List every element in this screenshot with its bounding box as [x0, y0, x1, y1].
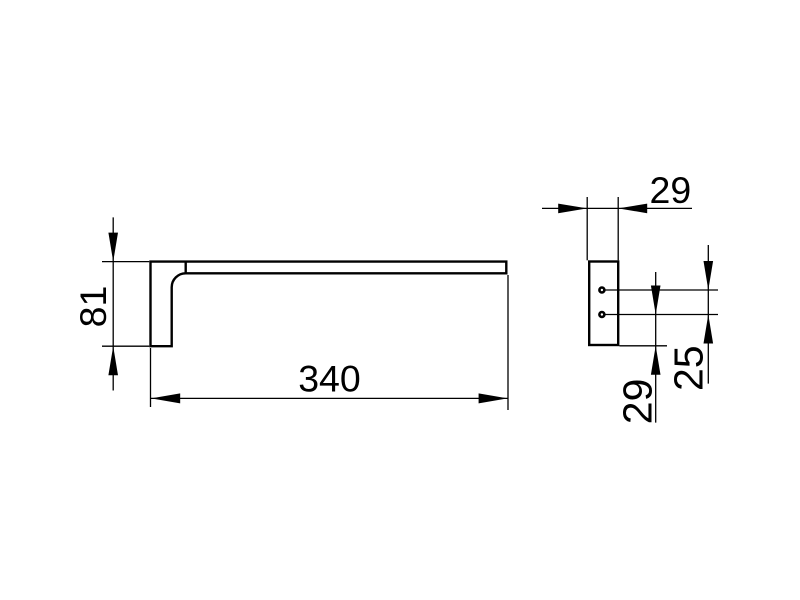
dim 81: bottom extension line: [102, 345, 149, 347]
front view: lower screw hole: [599, 312, 604, 317]
dim 81: top extension line: [102, 261, 149, 263]
side view: bracket outline (wall plate + bar): [151, 262, 507, 347]
dim 25: lower arrow (points up): [704, 315, 714, 344]
dim 340: dimension line: [151, 397, 508, 399]
dim 340: right arrow (points right): [479, 393, 508, 403]
dim 81: dimension line: [112, 217, 114, 390]
front view: upper screw hole: [599, 288, 604, 293]
dim 25: upper arrow (points down): [704, 261, 714, 290]
extension line from plate bottom: [619, 345, 667, 347]
dim 25: dimension line: [707, 245, 709, 384]
dim 29 bottom: dimension line: [655, 272, 657, 423]
extension line from upper hole: [605, 289, 718, 291]
dim 29 bottom: upper arrow (points down): [651, 286, 661, 315]
svg-text:29: 29: [650, 169, 692, 211]
svg-text:81: 81: [72, 286, 114, 328]
dim 29 top: right extension line: [617, 197, 619, 260]
dim 29 top: right arrow (points left): [618, 204, 647, 214]
dim 340: left arrow (points left): [151, 393, 180, 403]
svg-text:25: 25: [666, 345, 712, 391]
extension line from lower hole: [605, 314, 718, 316]
svg-text:340: 340: [298, 358, 361, 400]
dim 29 top: left arrow (points right): [558, 204, 587, 214]
dim 29 top: left extension line: [586, 197, 588, 260]
side view: seam line between bracket corner and bar: [184, 262, 186, 274]
dim 29 bottom: lower arrow (points up): [651, 346, 661, 375]
dim 81: upper arrow (points down): [108, 233, 118, 262]
dim 340: right extension line: [507, 275, 509, 410]
front view: wall plate rectangle: [589, 262, 618, 346]
dim 81: lower arrow (points up): [108, 346, 118, 375]
svg-text:29: 29: [615, 379, 661, 425]
dim 29 top: dimension line: [542, 207, 692, 209]
dim 340: left extension line: [150, 348, 152, 407]
